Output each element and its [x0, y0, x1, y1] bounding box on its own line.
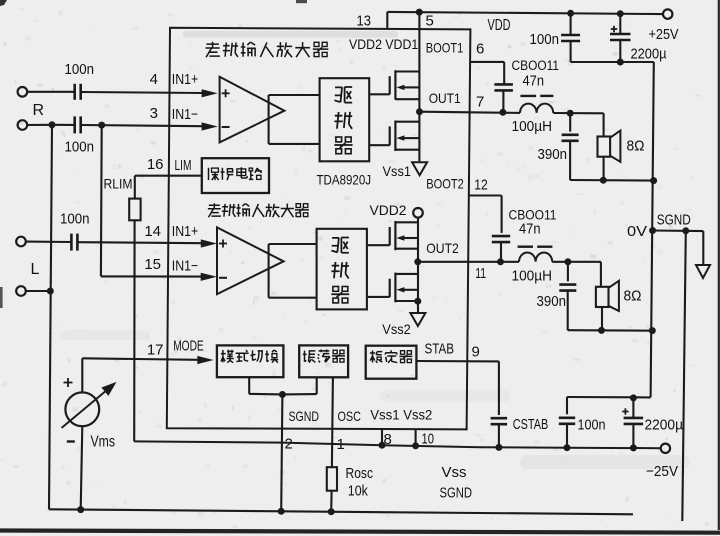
junction R- A — [49, 121, 56, 128]
svg-text:IN1+: IN1+ — [172, 224, 199, 240]
svg-text:100n: 100n — [60, 212, 90, 228]
terminal -25V — [661, 444, 670, 453]
svg-text:100n: 100n — [65, 140, 95, 156]
capacitor 100n R+ coupling — [73, 84, 76, 100]
wire amp to driver 1 top — [269, 94, 320, 96]
block label differential input amplifier 2 — [208, 203, 221, 217]
svg-text:100n: 100n — [578, 418, 606, 434]
wire amp2 link vertical — [268, 244, 270, 298]
terminal L input - — [16, 286, 26, 296]
svg-text:VDD2: VDD2 — [370, 202, 407, 218]
junction L2 out — [564, 258, 571, 265]
capacitor 2200u bottom — [632, 398, 634, 417]
speaker LS1 — [598, 137, 611, 157]
capacitor 2200u bottom + mark — [622, 411, 628, 413]
svg-text:VDD2: VDD2 — [349, 36, 382, 52]
junction pin10 — [412, 442, 419, 449]
svg-text:100n: 100n — [530, 32, 560, 48]
svg-text:Vms: Vms — [91, 434, 116, 451]
speaker LS2 — [596, 287, 609, 307]
svg-text:390n: 390n — [538, 147, 568, 163]
svg-text:11: 11 — [475, 265, 486, 282]
wire amp2 to driver top — [269, 243, 317, 245]
svg-text:OUT1: OUT1 — [429, 90, 461, 106]
speaker stub — [603, 157, 605, 180]
resistor RLIM — [134, 176, 136, 199]
scan mark top left — [0, 0, 7, 6]
svg-text:R: R — [33, 102, 45, 119]
svg-text:Vss2: Vss2 — [403, 408, 432, 423]
plus mark — [222, 92, 230, 94]
junction SGND vertical — [682, 227, 689, 234]
meter plus mark — [64, 382, 73, 384]
wire osc box to sgnd node — [316, 377, 318, 394]
wire R- A to cap — [52, 124, 74, 126]
svg-text:CSTAB: CSTAB — [513, 417, 549, 433]
arrow into amp IN1- — [202, 122, 218, 130]
node VDD1 pin5 junction — [416, 9, 423, 16]
arrow into amp2 IN1+ — [201, 239, 217, 247]
wire speaker return 2 — [568, 329, 653, 332]
terminal VDD2 circle — [413, 208, 423, 218]
wire caps top link bottom — [567, 396, 651, 398]
transistor M3 high-side ch2 — [394, 221, 396, 250]
svg-text:2: 2 — [285, 436, 293, 453]
junction pin8 — [379, 442, 386, 449]
wire cap2 to OUT2 — [500, 242, 502, 261]
svg-text:Vss1: Vss1 — [370, 408, 400, 423]
svg-text:IN1−: IN1− — [172, 107, 199, 123]
wire SGND pin2 — [281, 395, 282, 512]
svg-text:VDD: VDD — [488, 17, 511, 34]
svg-text:9: 9 — [472, 344, 480, 361]
block label differential input amplifier 1 — [206, 42, 220, 57]
terminal +25V — [663, 9, 672, 18]
svg-text:SGND: SGND — [289, 409, 320, 424]
svg-text:CBOO11: CBOO11 — [512, 58, 560, 73]
junction 2200uB — [630, 444, 637, 451]
pin 13 stub — [386, 12, 388, 28]
junction CSTAB — [495, 444, 502, 451]
arrow into mode box — [197, 356, 213, 364]
capacitor 2200u supply top — [619, 14, 621, 34]
wire OUT1 pin7 — [420, 112, 521, 113]
svg-text:VDD1: VDD1 — [385, 36, 418, 52]
svg-text:10: 10 — [422, 431, 435, 448]
svg-text:0V: 0V — [627, 223, 647, 240]
driver block 2 label — [331, 238, 349, 253]
ground Vss2 arrow — [410, 313, 425, 326]
wire L1 to speaker — [553, 112, 603, 114]
junction CBOO11/OUT1 — [499, 109, 506, 116]
speaker2 stub — [601, 307, 603, 330]
meter Vms circle — [65, 392, 99, 426]
svg-text:2200µ: 2200µ — [631, 46, 667, 63]
terminal L input + — [16, 237, 26, 247]
protection circuit box — [202, 158, 269, 193]
svg-text:13: 13 — [357, 13, 372, 30]
junction return2 rail — [649, 327, 656, 334]
wire cap to IN1+ pin14 — [79, 242, 203, 243]
arrow into amp2 IN1- — [201, 273, 217, 281]
svg-text:100µH: 100µH — [512, 119, 553, 135]
svg-text:OSC: OSC — [338, 409, 362, 424]
junction return1 rail — [650, 177, 657, 184]
terminal R input - — [18, 120, 28, 130]
svg-text:14: 14 — [144, 223, 161, 240]
wire VDD2 to M3 — [417, 218, 419, 223]
wire OUT2 bus — [417, 222, 419, 312]
svg-text:IN1−: IN1− — [172, 259, 199, 275]
wire speaker return 1 — [570, 179, 654, 182]
junction Vms bottom — [77, 506, 84, 513]
junction 100n top — [567, 10, 574, 17]
svg-text:7: 7 — [476, 94, 484, 111]
svg-text:390n: 390n — [537, 294, 567, 310]
op-amp U1A triangle — [220, 77, 285, 143]
svg-text:5: 5 — [426, 13, 434, 30]
wire cap to OUT1 — [502, 91, 504, 113]
svg-text:3: 3 — [150, 105, 158, 122]
svg-text:2200µ: 2200µ — [645, 418, 684, 434]
L2 core dashes — [518, 245, 533, 247]
svg-text:TDA8920J: TDA8920J — [317, 173, 372, 189]
svg-text:100µH: 100µH — [512, 269, 553, 285]
svg-text:IN1+: IN1+ — [172, 72, 199, 88]
capacitor 390n ch2 — [567, 262, 569, 282]
wire R- to junction — [27, 124, 52, 126]
meter needle — [62, 392, 105, 428]
svg-text:17: 17 — [147, 342, 164, 359]
svg-text:L: L — [31, 261, 40, 278]
svg-text:Rosc: Rosc — [346, 466, 374, 482]
inductor L1 100uH — [520, 104, 553, 113]
mode switch box — [217, 345, 284, 377]
wire R- down to L- — [49, 125, 52, 510]
wire LIM pin16 — [135, 175, 202, 177]
wire right vertical rail — [651, 62, 654, 397]
wire top +VDD rail — [387, 12, 663, 14]
junction pin2 bottom — [278, 508, 285, 515]
svg-text:Vss1: Vss1 — [383, 163, 412, 179]
junction L- — [47, 288, 54, 295]
wire L- to junction — [26, 290, 51, 292]
junction return1 speaker — [600, 177, 607, 184]
resistor Rosc — [327, 467, 337, 491]
pin 10 stub — [415, 429, 417, 446]
oscillator box — [299, 345, 348, 377]
minus mark 2 — [219, 277, 227, 279]
svg-text:BOOT1: BOOT1 — [426, 39, 464, 55]
junction M4 source — [414, 298, 421, 305]
inductor L2 100uH — [519, 252, 552, 261]
wire caps bottom link — [571, 61, 654, 63]
wire mode box to sgnd node — [248, 377, 250, 394]
wire amp to driver 1 bottom — [269, 143, 320, 145]
wire SGND link — [653, 229, 704, 232]
stabilizer label — [370, 351, 383, 363]
svg-text:16: 16 — [147, 156, 164, 173]
svg-text:SGND: SGND — [657, 212, 691, 228]
svg-text:47n: 47n — [523, 74, 545, 90]
capacitor 2200u top + mark — [611, 28, 617, 30]
svg-text:10k: 10k — [348, 484, 369, 500]
svg-text:RLIM: RLIM — [104, 176, 133, 192]
svg-text:4: 4 — [150, 71, 158, 88]
junction 2200u top — [617, 10, 624, 17]
wire MODE pin17 — [82, 358, 198, 360]
wire Vms to bottom rail — [81, 426, 83, 509]
svg-text:LIM: LIM — [175, 158, 192, 174]
L1 core dashes — [520, 95, 536, 97]
scan mark top edge — [296, 0, 307, 3]
junction Rosc bottom — [328, 508, 335, 515]
svg-text:BOOT2: BOOT2 — [426, 176, 464, 192]
wire L+ to cap — [26, 241, 71, 243]
junction R- B — [98, 122, 105, 129]
wire BOOT1 pin6 — [470, 61, 504, 63]
capacitor CBOO11 47n ch2 — [492, 235, 510, 238]
wire Rosc to rail — [330, 491, 332, 512]
junction 2200uB top — [630, 394, 637, 401]
capacitor 100n supply top - stub — [570, 13, 572, 35]
pin 8 stub — [381, 429, 383, 445]
svg-text:Vss2: Vss2 — [382, 321, 411, 337]
svg-text:6: 6 — [476, 41, 484, 58]
junction 2200u bottom — [617, 59, 624, 66]
capacitor 100n R- coupling — [73, 116, 76, 133]
svg-text:8Ω: 8Ω — [627, 138, 645, 155]
capacitor 100n L+ coupling — [70, 234, 73, 251]
svg-text:MODE: MODE — [173, 339, 204, 355]
wire amp link vertical — [268, 95, 270, 144]
capacitor CBOO11 47n ch1 — [494, 83, 513, 86]
svg-text:8Ω: 8Ω — [624, 288, 642, 305]
stabilizer box — [366, 346, 417, 379]
scan border right edge — [718, 0, 720, 530]
junction 100nB — [564, 444, 571, 451]
wire OUT2 pin11 — [418, 261, 519, 263]
svg-text:12: 12 — [474, 177, 488, 194]
svg-text:CBOO11: CBOO11 — [509, 208, 557, 223]
svg-text:+25V: +25V — [649, 26, 679, 43]
node 0V on rail — [649, 227, 656, 234]
svg-text:Vss: Vss — [442, 464, 467, 481]
svg-text:47n: 47n — [519, 222, 541, 238]
IC TDA8920J outline box — [167, 28, 471, 430]
minus mark — [222, 126, 230, 128]
wire cap to IN1+ pin 4 — [82, 92, 203, 93]
node OUT1 — [416, 108, 423, 115]
capacitor 100n bottom — [566, 397, 568, 414]
junction internal sgnd — [279, 391, 286, 398]
meter needle arrowhead — [101, 382, 116, 396]
svg-text:−25V: −25V — [646, 463, 678, 480]
wire OSC pin1 — [332, 377, 333, 467]
mode switch label — [221, 350, 234, 363]
protection circuit label — [209, 168, 219, 180]
driver block 2 box — [317, 229, 367, 310]
wire -Vss rail — [134, 441, 661, 448]
terminal R input + — [18, 87, 28, 97]
plus mark 2 — [219, 243, 227, 245]
op-amp U1B triangle — [217, 227, 284, 294]
wire amp2 to driver bottom — [269, 297, 317, 299]
junction CBOO11/OUT2 — [497, 258, 504, 265]
node OUT2 — [414, 258, 421, 265]
junction return2 speaker — [598, 327, 605, 334]
svg-text:STAB: STAB — [425, 342, 455, 358]
driver block 1 box — [320, 78, 370, 161]
capacitor 100n supply top — [561, 34, 580, 37]
transistor M1 high-side ch1 — [394, 70, 396, 99]
wire SGND down right edge — [682, 231, 686, 521]
ground Vss1 arrow — [412, 162, 427, 175]
transistor M4 low-side ch2 — [394, 273, 396, 303]
svg-text:100n: 100n — [65, 62, 95, 78]
svg-text:SGND: SGND — [440, 485, 473, 502]
wire R-B down to IN1- ch2 — [100, 125, 103, 276]
arrow into amp IN1+ — [202, 89, 218, 97]
driver block 1 label — [334, 87, 352, 103]
scan mark left edge — [0, 287, 3, 308]
wire L2 to speaker2 — [552, 261, 601, 263]
wire VDD1 bus — [418, 12, 420, 161]
wire cap to IN1- pin 3 — [82, 125, 203, 126]
svg-text:15: 15 — [144, 256, 161, 273]
wire STAB pin9 — [416, 360, 499, 362]
capacitor CSTAB — [491, 417, 508, 420]
svg-text:OUT2: OUT2 — [426, 240, 459, 256]
meter minus mark — [67, 440, 75, 442]
scan border bottom — [0, 528, 720, 534]
junction L1 out — [567, 110, 574, 117]
transistor M2 low-side ch1 — [394, 121, 396, 152]
ground SGND arrow — [696, 265, 710, 278]
wire Vms to MODE — [81, 358, 83, 392]
oscillator label — [303, 351, 316, 363]
wire R+ to cap — [27, 91, 73, 93]
wire bottom SGND rail — [49, 509, 633, 514]
wire BOOT2 pin12 — [469, 194, 501, 196]
capacitor 390n ch1 — [569, 113, 571, 131]
